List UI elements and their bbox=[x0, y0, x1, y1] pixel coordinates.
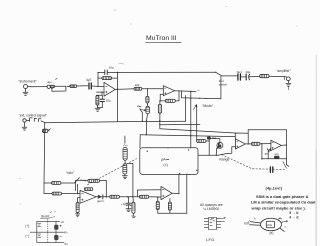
svg-text:wrap circuit! maybe or else ).: wrap circuit! maybe or else ). bbox=[251, 205, 306, 210]
resistor 47k bbox=[274, 152, 280, 158]
wiper branch to A6 line bbox=[127, 163, 133, 196]
capacitor C2 (A1 feedback) bbox=[105, 70, 107, 75]
op-amp A6 bbox=[80, 190, 96, 203]
squiggle (attack) bbox=[123, 145, 127, 146]
svg-text:4½: 4½ bbox=[63, 230, 68, 234]
electrolytic cap C- bbox=[54, 235, 58, 240]
wire node down to RC filter bbox=[97, 92, 103, 95]
dashed gang line 1 bbox=[88, 159, 137, 185]
vertical node down bbox=[261, 144, 263, 159]
svg-text:4μ7: 4μ7 bbox=[86, 78, 92, 82]
node below A1 plus input bbox=[101, 91, 102, 92]
svg-text:MυTron III: MυTron III bbox=[146, 35, 177, 42]
node ext rail / wiper bbox=[142, 120, 143, 121]
node A3 out bbox=[178, 193, 179, 194]
dotted center divider bbox=[47, 219, 49, 243]
svg-text:c: c bbox=[285, 225, 287, 229]
resistor (A6 feedback) bbox=[88, 179, 100, 182]
wire to switch pole bbox=[61, 182, 75, 184]
op-amp A1 bbox=[104, 82, 115, 96]
supply rail bottom bbox=[37, 241, 64, 243]
feedback top wire bbox=[98, 71, 117, 73]
ground (attack chain) bbox=[122, 174, 127, 179]
A2 lower input wire bbox=[160, 94, 163, 101]
supply rail mid bbox=[30, 231, 63, 233]
node sw common bbox=[77, 193, 78, 194]
can leads left bbox=[250, 222, 260, 226]
DIP pin arrows bbox=[221, 218, 226, 219]
faint smudges bbox=[19, 7, 297, 205]
A3 loop vertical bbox=[186, 174, 188, 213]
A3 upper input wire bbox=[137, 190, 161, 197]
mode wiper arrow bbox=[193, 105, 196, 109]
A2 output wire bbox=[175, 90, 196, 93]
wire to resistor bbox=[249, 75, 259, 77]
node A3 input bbox=[157, 196, 159, 198]
wire to A5 bbox=[260, 143, 271, 145]
wire between bbox=[124, 160, 126, 164]
svg-text:“hi/lo”: “hi/lo” bbox=[66, 171, 74, 175]
svg-text:ger: ger bbox=[265, 152, 269, 156]
feedback wire to node bbox=[100, 180, 107, 196]
DIP inner marks bbox=[210, 220, 214, 226]
A2 feedback wires bbox=[160, 92, 179, 101]
resistor below attack pot bbox=[123, 164, 127, 174]
long vertical A1 out / ext rail bbox=[116, 72, 118, 121]
pot bottom wire down to rail2 bbox=[146, 114, 147, 135]
rail A short bbox=[160, 123, 200, 125]
wire to A6 input bbox=[62, 193, 80, 195]
switch diag (dash end) bbox=[283, 162, 287, 169]
svg-text:0v: 0v bbox=[65, 242, 69, 246]
resistor (output) bbox=[260, 74, 269, 77]
svg-text:¼ LM3900: ¼ LM3900 bbox=[203, 207, 219, 211]
A2 feedback resistor bbox=[165, 99, 175, 102]
wire branch2 vertical bbox=[44, 183, 52, 194]
vertical sw common bbox=[77, 185, 79, 194]
node after diode bbox=[106, 196, 108, 198]
ext rail (long) bbox=[46, 121, 186, 123]
wire to out jack bbox=[269, 75, 286, 78]
op-amp A5 bbox=[271, 140, 282, 150]
wire 1M to vertical bbox=[206, 140, 209, 142]
A4 out wire bbox=[245, 143, 251, 145]
transistor Q1 bbox=[217, 142, 223, 148]
potentiometer (sweep depth) bbox=[146, 105, 150, 114]
resistor below A3 input bbox=[156, 197, 159, 213]
vertical box top-left bbox=[139, 135, 141, 148]
node ext rail / pot bottom bbox=[146, 120, 147, 121]
resistor (hi) bbox=[52, 182, 61, 185]
A5 out bbox=[281, 144, 286, 146]
svg-text:••: •• bbox=[198, 88, 200, 92]
node res branch bbox=[132, 196, 134, 198]
title underline bbox=[146, 41, 182, 43]
resistor chain below A2 bbox=[158, 100, 161, 128]
DIP pins left bbox=[204, 219, 208, 228]
ground (input jack) bbox=[23, 89, 28, 96]
resistor 1M bbox=[197, 140, 206, 143]
ground (A6 resistor) bbox=[76, 213, 80, 217]
depth pot (ext) bbox=[42, 129, 50, 133]
output jack J2 bbox=[286, 77, 290, 81]
wire contacts to rail bbox=[41, 121, 46, 123]
svg-text:LFO.: LFO. bbox=[206, 237, 215, 242]
wiper U loop bbox=[52, 86, 66, 91]
electrolytic cap C+ bbox=[54, 225, 58, 230]
op-amp A4 bbox=[235, 139, 245, 149]
svg-text:chip: chip bbox=[267, 223, 273, 227]
wire R1 to C1 bbox=[77, 85, 88, 87]
wire R3 to A2 bbox=[142, 88, 164, 90]
env bottom rail bbox=[262, 158, 287, 160]
svg-text:0μ1: 0μ1 bbox=[237, 70, 242, 74]
svg-text:47k: 47k bbox=[274, 152, 279, 156]
svg-text:10p: 10p bbox=[109, 65, 114, 69]
A4 fb vertical bbox=[247, 130, 249, 144]
svg-text:(e): (e) bbox=[270, 231, 274, 235]
input jack J1 bbox=[24, 85, 32, 89]
resistor R (to A3) bbox=[139, 195, 148, 198]
resistor (A4 out) bbox=[252, 142, 260, 145]
capacitor to ground (A1 bias) bbox=[100, 95, 104, 107]
wire to Q1 bbox=[209, 139, 220, 143]
svg-text:10k: 10k bbox=[135, 83, 140, 87]
resistor (trimmer top) bbox=[146, 96, 149, 104]
svg-text:SSM is a dual gate phaser &: SSM is a dual gate phaser & bbox=[256, 194, 309, 199]
supply verticals bbox=[37, 221, 56, 242]
vertical rail to A2 out bbox=[185, 96, 187, 122]
capacitor (envelope) bbox=[126, 197, 131, 209]
A6 lower input wire bbox=[78, 198, 80, 203]
drop from A2 out to switch rail bbox=[181, 91, 221, 99]
cap plus ticks bbox=[60, 225, 62, 236]
capacitor (output 1) bbox=[238, 74, 241, 80]
svg-text:10μ: 10μ bbox=[245, 70, 250, 74]
battery cell ticks bottom bbox=[38, 234, 41, 237]
switch throw dots bbox=[81, 180, 86, 181]
transistor can drawing bbox=[245, 217, 288, 235]
faint label above top wire bbox=[119, 63, 124, 64]
node trimmer top bbox=[147, 88, 148, 89]
vertical (range drive) bbox=[208, 136, 210, 155]
A6 feedback top wire bbox=[76, 179, 88, 181]
A1 plus input wire bbox=[97, 91, 105, 93]
resistor R3 bbox=[134, 87, 142, 90]
wire diode to R bbox=[103, 196, 110, 198]
scan crease right margin bbox=[315, 55, 317, 246]
wire pot top to rail bbox=[44, 123, 46, 129]
DIP body bbox=[208, 218, 216, 230]
ext control jack J3 bbox=[23, 119, 26, 122]
wire down from top bbox=[124, 136, 126, 143]
wire jack to gain pot bbox=[31, 86, 47, 88]
svg-text:b: b bbox=[254, 217, 256, 221]
svg-text:4 → d: 4 → d bbox=[289, 216, 298, 220]
DIP pins right bbox=[217, 219, 221, 228]
dark blob resistor bbox=[207, 137, 211, 140]
svg-text:+1μ: +1μ bbox=[121, 202, 126, 206]
A3 output wire bbox=[172, 174, 179, 193]
env loop right vertical bbox=[285, 130, 287, 165]
svg-text:“instrument”: “instrument” bbox=[19, 80, 37, 84]
diode D1 bbox=[96, 195, 103, 199]
node A1 output bbox=[117, 89, 119, 91]
switch (hi/lo) bbox=[75, 178, 80, 183]
svg-text:LM a similar encapsulated Ca d: LM a similar encapsulated Ca dual bbox=[251, 200, 315, 205]
rail B long bbox=[160, 129, 235, 133]
mode pot vertical bbox=[196, 105, 198, 141]
can lead right bbox=[282, 221, 288, 222]
svg-text:•1μ•: •1μ• bbox=[47, 80, 52, 84]
svg-text:“ext. control signal”: “ext. control signal” bbox=[19, 114, 47, 118]
wire to A3 bbox=[149, 196, 161, 198]
svg-text:(+): (+) bbox=[25, 224, 29, 228]
top bypass wire bbox=[117, 71, 215, 73]
resistor below (A6) bbox=[76, 202, 79, 212]
svg-text:germ.: germ. bbox=[97, 199, 105, 203]
resistor R2 (A1 feedback) bbox=[98, 77, 117, 80]
capacitor (output 2 electrolytic) bbox=[240, 74, 249, 80]
supply rail top bbox=[37, 220, 60, 222]
wire RC bottom join bbox=[97, 105, 102, 107]
svg-text:10μ: 10μ bbox=[106, 99, 111, 103]
svg-text:(4μ,1ev!): (4μ,1ev!) bbox=[266, 185, 283, 190]
potentiometer gain (circle + element) bbox=[47, 85, 55, 88]
can body bbox=[261, 218, 282, 230]
wire box to A4 lower input bbox=[199, 147, 236, 156]
ground (ext jack) bbox=[22, 122, 27, 130]
svg-text:lid: lid bbox=[245, 222, 248, 226]
wiper arrow into pot bbox=[140, 109, 146, 111]
resistor below A3 (second) bbox=[168, 199, 171, 214]
svg-text:(−): (−) bbox=[25, 234, 29, 238]
svg-text:+9: +9 bbox=[60, 220, 64, 224]
svg-text:“amplifier”: “amplifier” bbox=[277, 69, 291, 73]
wire switch to cap bbox=[222, 75, 238, 77]
resistor (lo) bbox=[52, 192, 62, 195]
wire branch1 bbox=[44, 182, 52, 184]
node A1 minus input bbox=[97, 86, 98, 87]
env loop top bbox=[248, 129, 286, 131]
node cap branch bbox=[127, 196, 129, 198]
svg-text:Range: Range bbox=[219, 157, 229, 161]
wire to nodes bbox=[119, 196, 139, 198]
node rail2 left end bbox=[146, 134, 148, 136]
resistor (envelope bleed) bbox=[132, 197, 135, 214]
bottom rail A3 bbox=[158, 212, 187, 214]
feedback left vertical wire bbox=[97, 73, 99, 87]
junction dots on rails bbox=[47, 221, 48, 222]
potentiometer attack bbox=[123, 147, 127, 160]
wiper wire down to ext rail bbox=[140, 109, 142, 121]
svg-text:9volt: 9volt bbox=[41, 214, 50, 218]
wire pot bottom down bbox=[43, 133, 46, 183]
svg-text:“Mode”: “Mode” bbox=[202, 104, 213, 108]
resistor R1 bbox=[70, 85, 77, 88]
capacitor C1 (input) bbox=[89, 83, 91, 89]
dashed gang line 2 bbox=[222, 155, 287, 170]
DIP IC diagram bbox=[204, 218, 225, 230]
resistor to ground (A1 bias) bbox=[96, 96, 99, 106]
hook arrow at A5 out bottom bbox=[286, 164, 289, 166]
title MuTron III bbox=[146, 35, 177, 42]
ground (envelope bleed) bbox=[132, 213, 136, 217]
battery cell ticks top bbox=[38, 223, 41, 226]
ground (envelope cap) bbox=[126, 209, 131, 212]
Q1 emitter lead bbox=[215, 149, 218, 156]
capacitor on dash line bbox=[270, 167, 272, 173]
svg-text:switch: switch bbox=[219, 82, 228, 86]
jack switch contacts bbox=[26, 118, 41, 122]
node top wire junction bbox=[117, 72, 119, 74]
wire C1 to A1 input bbox=[92, 85, 104, 87]
vertical footswitch line bbox=[220, 76, 222, 99]
svg-text:(×): (×) bbox=[164, 163, 168, 167]
resistor R (post diode) bbox=[110, 195, 120, 198]
op-amp A3 bbox=[161, 186, 172, 199]
box pin dots bbox=[147, 151, 148, 152]
rail C to 1M bbox=[140, 135, 235, 137]
filter box U1 bbox=[140, 148, 198, 175]
tick at jack bbox=[283, 76, 285, 80]
squiggle label bbox=[138, 106, 141, 107]
ground (A1 bias RC) bbox=[95, 108, 100, 111]
wire A1 out to R3 bbox=[115, 88, 134, 91]
A2 op-amp bbox=[163, 86, 174, 96]
can tab bbox=[279, 217, 282, 220]
wire pot to R1 bbox=[55, 85, 70, 87]
small resistor above A6 bbox=[84, 188, 92, 191]
long vertical A2out to box bbox=[190, 91, 192, 148]
svg-text:1M: 1M bbox=[212, 136, 217, 140]
can lead lower right bbox=[280, 228, 284, 231]
diode (A5 fb) bbox=[267, 148, 271, 159]
A4 input loop bbox=[235, 133, 248, 139]
scan crease lower part bbox=[315, 150, 317, 246]
node ext rail / chain bbox=[159, 120, 160, 121]
foot switch bbox=[216, 72, 222, 76]
svg-text:μA•••: μA••• bbox=[161, 158, 170, 162]
can inner chip bbox=[266, 221, 274, 227]
svg-text:9 → b: 9 → b bbox=[289, 211, 298, 215]
ground (output jack) bbox=[286, 81, 291, 90]
node feedback top left bbox=[97, 72, 98, 73]
wire bbox=[146, 90, 148, 97]
